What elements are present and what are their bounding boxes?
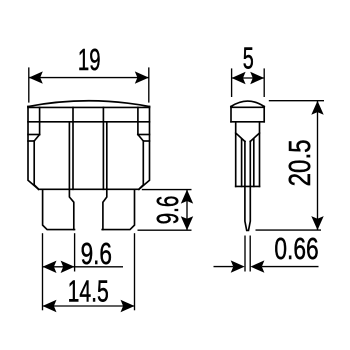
svg-text:0.66: 0.66 [274,232,318,266]
svg-text:5: 5 [243,42,254,76]
svg-text:9.6: 9.6 [81,237,112,271]
svg-text:20.5: 20.5 [283,139,317,186]
svg-text:14.5: 14.5 [68,274,109,308]
svg-text:19: 19 [78,43,101,77]
svg-text:9.6: 9.6 [151,196,185,225]
